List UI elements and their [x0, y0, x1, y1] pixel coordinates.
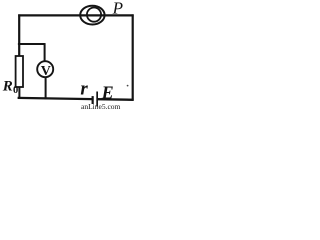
wire below voltmeter [45, 78, 47, 100]
battery short plate [92, 96, 94, 104]
svg-text:0: 0 [13, 85, 18, 96]
speck noise [127, 85, 129, 87]
wire right vertical [132, 14, 134, 100]
svg-text:anLine5.com: anLine5.com [81, 102, 121, 110]
svg-text:R: R [2, 78, 13, 94]
wire branch horizontal to voltmeter [18, 43, 45, 45]
svg-text:E: E [101, 82, 114, 102]
svg-text:r: r [80, 79, 88, 100]
battery long plate [96, 92, 98, 107]
resistor R0 box [16, 56, 23, 87]
wire top horizontal [18, 14, 133, 16]
wire bottom left segment [18, 98, 93, 99]
svg-text:P: P [112, 0, 123, 18]
voltmeter U circle [37, 61, 53, 77]
lamp P outer ellipse [80, 6, 104, 25]
wire branch vertical to voltmeter [44, 43, 46, 61]
wire left vertical [18, 14, 20, 56]
svg-text:V: V [41, 64, 51, 79]
wire bottom right segment [97, 98, 133, 101]
wire below resistor box [18, 87, 20, 99]
lamp P inner circle [87, 8, 101, 22]
